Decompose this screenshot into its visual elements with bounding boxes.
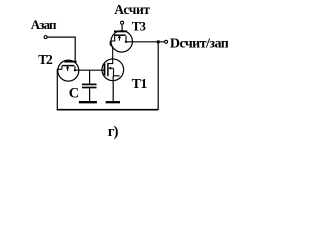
terminal Азап [44,36,47,39]
svg-text:T1: T1 [132,77,148,92]
terminal Dсчит/зап [165,40,168,43]
wire bottom rail (D line to T2 source) [57,109,159,111]
wire D line vertical down to bottom rail [157,42,159,110]
transistor T1 (MOSFET, gate left) [102,59,124,81]
svg-text:C: C [69,86,79,102]
svg-text:Азап: Азап [31,17,57,32]
svg-text:г): г) [108,124,119,140]
transistor T3 (MOSFET, gate up) [110,31,132,52]
ground bar under T1 [106,101,120,103]
capacitor C [82,70,97,101]
wire T2 source down left rail [57,69,62,110]
wire storage node: T2 drain to capacitor and T1 gate [75,69,104,71]
svg-text:Асчит: Асчит [114,2,150,17]
ground bar under capacitor [79,101,97,103]
wire T1 source to ground [112,76,114,102]
wire T3 drain to Dсчит/зап terminal [126,41,164,43]
svg-text:T2: T2 [38,52,53,67]
svg-text:Dсчит/зап: Dсчит/зап [170,37,228,52]
svg-text:T3: T3 [132,18,147,33]
terminal Асчит [121,21,124,24]
wire T3 source down to T1 drain [110,41,113,59]
transistor T2 (MOSFET, gate up) [58,60,79,81]
junction dot on D line [157,40,160,43]
wire Асчит terminal to T3 gate [121,25,123,32]
wire Азап terminal to T2 gate [48,37,76,61]
